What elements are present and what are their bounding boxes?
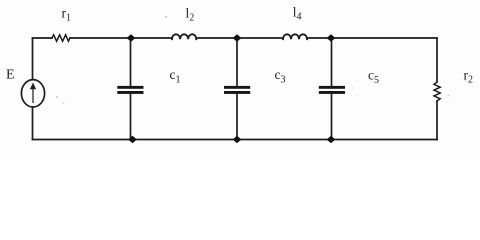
faint speck near l2 label <box>165 16 167 18</box>
svg-text:c5: c5 <box>368 68 379 87</box>
inductor L4 <box>283 34 307 39</box>
wire cap c5 top lead <box>331 38 333 86</box>
wire cap c1 top lead <box>130 38 132 86</box>
wire top segment r1 to node1 <box>70 37 172 39</box>
svg-text:c3: c3 <box>275 67 286 86</box>
node junction dot top 1 <box>127 34 136 42</box>
resistor R2 <box>434 82 440 101</box>
wire top segment l4 to top-right corner <box>307 37 437 39</box>
node junction dot top 2 <box>233 34 242 42</box>
faint speck near r2 <box>448 95 450 97</box>
source E circle <box>21 80 44 107</box>
faint speck near source 2 <box>63 102 65 104</box>
svg-text:r1: r1 <box>62 6 72 24</box>
svg-text:c1: c1 <box>170 67 181 86</box>
svg-text:l2: l2 <box>186 6 195 24</box>
wire cap c3 bottom lead <box>236 94 238 140</box>
wire cap c5 bottom lead <box>331 94 333 140</box>
node junction dot bottom 3 <box>327 136 336 144</box>
capacitor C5 <box>319 86 345 94</box>
wire bottom rail <box>33 139 438 141</box>
capacitor C3 <box>224 86 250 94</box>
svg-text:l4: l4 <box>293 5 302 23</box>
wire right top (corner to r2) <box>436 38 438 82</box>
svg-text:r2: r2 <box>464 68 474 86</box>
wire left bottom (source to bottom rail) <box>32 107 34 140</box>
node junction dot top 3 <box>327 34 336 42</box>
faint speck near source <box>56 96 58 98</box>
node junction dot bottom 1 <box>128 136 137 144</box>
svg-text:E: E <box>6 68 15 83</box>
resistor R1 <box>52 35 70 41</box>
wire top segment l2 to l4 <box>196 37 283 39</box>
wire left top (corner to source) <box>32 38 34 80</box>
node junction dot bottom 2 <box>233 136 242 144</box>
wire top-left segment <box>33 37 53 39</box>
wire right bottom (r2 to bottom rail) <box>436 101 438 140</box>
faint speck near c5 <box>352 87 354 89</box>
source E arrow <box>30 83 36 104</box>
wire cap c3 top lead <box>236 38 238 86</box>
wire cap c1 bottom lead <box>130 94 132 140</box>
capacitor C1 <box>117 86 143 94</box>
inductor L2 <box>172 34 196 39</box>
